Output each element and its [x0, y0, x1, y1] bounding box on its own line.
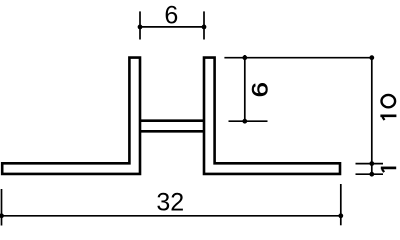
dim 6 right: bottom extension line	[229, 120, 268, 122]
dim 32: right extension line	[340, 184, 342, 225]
svg-text:6: 6	[164, 2, 178, 30]
dim 6 right: top tick dot	[242, 55, 247, 60]
profile right angle piece (flange + right wall)	[204, 58, 340, 174]
dim 6 right: dimension line	[244, 55, 246, 123]
dim 1: upper extension line	[356, 163, 384, 165]
profile left angle piece (flange + left wall)	[2, 58, 140, 174]
dim 10: label digit 0 (rotated, drawn)	[382, 95, 396, 107]
dim 32: left tick dot	[0, 213, 4, 218]
dim 10: top tick dot	[369, 55, 374, 60]
dim 6 top: dimension line	[140, 26, 204, 28]
dim 6 top: right tick dot	[202, 25, 207, 30]
dim 10: dimension line	[371, 56, 373, 175]
dim 32: dimension line	[2, 215, 341, 217]
crossbar bottom surface	[140, 130, 204, 133]
dim 10: label digit 1 (rotated, drawn)	[380, 114, 396, 117]
svg-text:32: 32	[156, 189, 184, 217]
svg-text:6: 6	[248, 82, 273, 97]
dim 6 top: left extension line	[139, 11, 141, 39]
dim 6 top: right extension line	[203, 11, 205, 39]
dim 6 right: bottom tick dot	[242, 119, 247, 124]
dim 1: label (rotated, drawn)	[381, 167, 396, 170]
dim 1: bottom tick dot	[369, 172, 374, 177]
dim 10: bottom tick dot	[369, 161, 374, 166]
dim 1: lower extension line	[356, 173, 384, 175]
dim 6 top: left tick dot	[138, 25, 143, 30]
dim 32: right tick dot	[338, 213, 343, 218]
dim 6 right: top extension line (shared with dim 10)	[224, 57, 372, 59]
crossbar top surface	[140, 119, 204, 122]
dim 32: left extension line	[1, 189, 3, 226]
